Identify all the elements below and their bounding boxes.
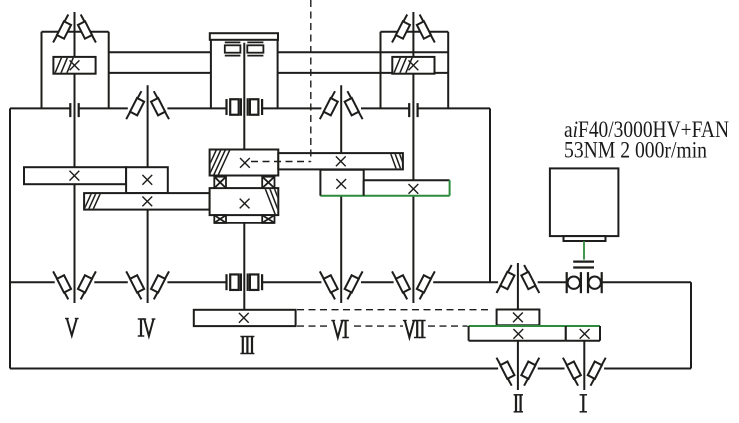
svg-text:53NM 2 000r/min: 53NM 2 000r/min [564, 137, 707, 163]
